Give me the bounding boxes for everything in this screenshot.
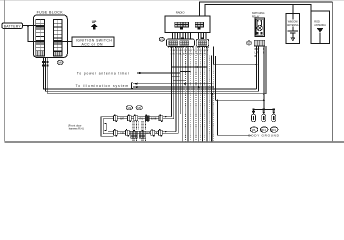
wire jog c (173, 79, 185, 81)
rod antenna element (317, 29, 323, 44)
radio unit (165, 16, 210, 33)
wire relay pin D down (265, 46, 267, 94)
node dots on bundle at y67 (172, 66, 208, 68)
speaker harness inline connectors row 1 (114, 115, 163, 123)
wire junction down from battery node (28, 26, 36, 42)
wire left loop row1-row2 outer (101, 117, 114, 137)
radio label (176, 10, 185, 14)
wire bundle riser to ground (216, 56, 264, 100)
ground drop 3 (272, 110, 276, 122)
ignition switch SW1 (72, 37, 114, 47)
node junction on band line (211, 93, 213, 95)
fuse column left (36, 20, 45, 57)
wire relay pin A down to radio feed (214, 46, 257, 64)
wire to illumination system lower (133, 86, 214, 88)
fuse 7.5A battery (dark cell left column) (36, 25, 45, 28)
wire branch down from band into bundle (211, 94, 213, 142)
page frame right border / antenna feed wire down right side (332, 2, 334, 141)
wire speaker row 2 line b (108, 133, 178, 135)
UP label (92, 20, 97, 24)
body ground distribution bar (252, 108, 274, 110)
connector label M33 oval (relay) (246, 41, 252, 45)
svg-text:BODY GROUND: BODY GROUND (248, 134, 279, 138)
svg-text:B/W: B/W (255, 48, 260, 51)
fuse block lower connector feet (36, 51, 62, 56)
svg-text:B13: B13 (261, 128, 266, 132)
switching relay RY1 (255, 18, 265, 37)
radio harness connector outline left (167, 37, 195, 46)
wire fuse block bottom feed 2 (46, 57, 259, 91)
window antenna element (288, 31, 298, 41)
rod antenna box (311, 11, 330, 43)
wire relay pin A vertical (256, 46, 258, 89)
svg-text:To power antenna timer: To power antenna timer (77, 71, 130, 75)
svg-text:BATTERY: BATTERY (4, 24, 22, 28)
wire jog b (171, 76, 179, 78)
svg-text:B/R: B/R (120, 118, 124, 121)
radio connector grid right (195, 22, 203, 29)
wire to illumination system upper (133, 83, 212, 85)
UP arrow (91, 24, 98, 30)
connector label M5 oval (136, 106, 142, 110)
ground label oval 1 (250, 127, 258, 132)
wire radio antenna feed 1 (to rod antenna / right frame) (200, 2, 333, 16)
front door harness label (68, 124, 106, 131)
svg-text:RADIO: RADIO (176, 10, 185, 14)
wire speaker row 1 line a (108, 116, 172, 118)
label to illumination system (76, 83, 133, 88)
svg-text:M6: M6 (58, 61, 62, 65)
switching relay label (252, 11, 265, 18)
relay harness connector block (254, 40, 264, 46)
wire speaker row 2 line a (108, 131, 176, 133)
wire relay pin B down to band (258, 46, 260, 91)
svg-text:ACC or ON: ACC or ON (82, 42, 104, 46)
ground label oval 2 (260, 127, 268, 132)
wire radio antenna feed 2 (to window antenna) (205, 5, 311, 16)
battery B1 (2, 23, 23, 28)
wire color labels row 2 (120, 132, 158, 135)
svg-text:harness R.H.): harness R.H.) (69, 126, 84, 130)
body ground label (248, 134, 279, 138)
door harness connector grid 1 (131, 130, 137, 138)
fuse column right (53, 20, 62, 57)
door harness connector grid 2 (139, 130, 145, 138)
wire fuse ACC to ignition switch (62, 41, 72, 43)
svg-text:M7: M7 (247, 41, 251, 45)
connector label M2 oval (126, 106, 132, 110)
wire relay pin C down to body ground bar (263, 46, 265, 110)
radio connector grid left (175, 22, 189, 29)
wire branch to window antenna (292, 5, 294, 31)
window antenna label (287, 20, 299, 27)
node dots speaker row lines (165, 116, 167, 133)
wire color labels row 1 (120, 118, 157, 121)
fuse 7.5A lower (dark cell left column) (36, 40, 45, 43)
door harness bundle hatched below (133, 138, 145, 141)
wire to power antenna timer (136, 72, 180, 74)
svg-text:R/B: R/B (146, 132, 150, 135)
ground drop 1 (251, 110, 255, 122)
wire fuse block bottom feed 1 (44, 57, 257, 89)
page frame left border (4, 0, 6, 142)
ground drop 2 (262, 110, 266, 122)
inline connector terminals on fuse feeds (42, 61, 48, 67)
ground label oval 3 (270, 127, 278, 132)
wire left loop row1-row2 inner (103, 119, 113, 134)
relay wire color labels (255, 48, 266, 58)
rod antenna label (314, 20, 326, 27)
svg-text:M2: M2 (128, 106, 132, 110)
svg-text:ANTENNA: ANTENNA (287, 23, 299, 27)
connector label M6 oval (57, 60, 63, 64)
radio harness connector outline right (196, 37, 209, 46)
speaker harness inline connectors row 2 (114, 129, 163, 137)
svg-text:UP: UP (92, 20, 97, 24)
svg-text:B19: B19 (271, 128, 276, 132)
svg-text:FUSE BLOCK: FUSE BLOCK (37, 11, 64, 15)
connector label M33 oval (below radio left) (159, 37, 165, 41)
node junction on battery wire (27, 25, 29, 27)
label to power antenna timer (77, 71, 130, 75)
svg-text:R/L: R/L (140, 118, 144, 121)
wire fuse block bottom feed 3 (48, 57, 266, 93)
svg-text:M6: M6 (252, 128, 256, 132)
wire bundle verticals below radio (172, 46, 214, 141)
connector comb ticks below outlines (169, 46, 209, 48)
wire color labels below radio row 1 (171, 50, 209, 52)
svg-text:M33: M33 (159, 38, 164, 41)
page frame bottom border (5, 141, 344, 143)
wire radio pins to harness connectors (173, 33, 207, 40)
node dots on ground feed (263, 93, 265, 101)
wire speaker row 1 line b (108, 118, 174, 120)
svg-text:To illumination system: To illumination system (76, 84, 129, 88)
svg-text:ANTENNA: ANTENNA (314, 23, 326, 27)
wire color labels below radio row 2 (171, 54, 210, 56)
node junction relay A (256, 63, 258, 65)
fuse column center lines (40, 20, 58, 57)
svg-text:L/R: L/R (120, 132, 124, 135)
wire jog a (180, 71, 190, 73)
svg-text:M5: M5 (137, 106, 141, 110)
wire battery to fuse block (23, 25, 37, 27)
door harness bundle hatched 1 (133, 121, 138, 130)
fuse block body (33, 15, 67, 57)
wire branch down to lower route (218, 100, 252, 135)
node dots on illumination lines (184, 83, 200, 88)
fuse 7.5A ACC (dark cell right column) (53, 40, 62, 43)
node junction at ground feed split (217, 99, 219, 101)
window antenna box (286, 13, 300, 43)
door harness bundle hatched 2 (142, 121, 145, 130)
fuse block label (37, 11, 64, 15)
page frame top edge (0, 0, 344, 2)
